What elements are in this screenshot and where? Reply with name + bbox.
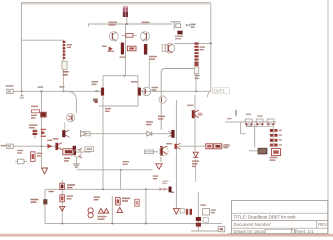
transistor Q5: [177, 31, 182, 35]
resistor R18: [135, 199, 139, 206]
diode string D1: [63, 41, 66, 59]
wire left rail vertical: [20, 2, 22, 91]
wire zobel row: [77, 169, 153, 171]
wire chain2 drop: [195, 55, 197, 91]
resistor R14: [60, 195, 65, 202]
transistor Q2: [140, 32, 149, 41]
d6 area text: [153, 175, 159, 179]
chain1 value text: [67, 44, 72, 48]
fb node text: [38, 86, 44, 87]
chain2 value text: [200, 46, 205, 50]
resistor R15: [115, 198, 120, 205]
title block line above title row: [231, 212, 327, 214]
wire feedback bus left: [16, 90, 101, 92]
wire q5 ground leg: [160, 157, 162, 162]
diode string D2: [194, 43, 198, 67]
vas rail end tick: [87, 24, 89, 27]
capacitor C7: [196, 217, 201, 227]
resistor R3: [122, 34, 138, 38]
wire vas column: [102, 106, 104, 189]
transistor Q13: [73, 146, 76, 155]
wire under boxes: [246, 126, 274, 128]
resistor R7: [63, 149, 74, 155]
wire right fb column: [194, 95, 196, 151]
resistor R6: [32, 110, 47, 118]
wire vas corner arc: [161, 69, 196, 97]
frame bottom inner line: [228, 233, 328, 235]
diode D6: [147, 131, 152, 136]
transistor Q3: [121, 43, 124, 55]
cluster text t2: [175, 36, 183, 40]
svg-text:REV:: REV:: [318, 222, 328, 227]
wire VAS drop: [125, 24, 127, 76]
transistor Q10: [159, 96, 166, 103]
CONN1 label text: [6, 85, 14, 86]
Q7 label text: [92, 81, 99, 85]
wire predriver col: [195, 160, 197, 183]
r7 value text: [64, 158, 70, 162]
cluster text t1: [149, 56, 157, 60]
wire emitter row: [144, 151, 158, 153]
capacitor C3 stub: [20, 93, 25, 98]
Q8 label text: [131, 81, 138, 83]
R6 label text: [31, 106, 38, 108]
diode D11: [117, 207, 123, 212]
svg-text:Drawn by: pnord: Drawn by: pnord: [234, 229, 267, 234]
resistor R12: [214, 144, 222, 149]
ground GND1: [42, 168, 48, 174]
junction dot B: [21, 90, 23, 92]
wire mirror box right: [137, 76, 139, 88]
ground GND2: [73, 164, 79, 168]
k1 value text: [200, 204, 206, 205]
transistor Q19: [43, 199, 47, 204]
box sym B2: [180, 208, 184, 213]
diode D9: [98, 209, 103, 214]
tri sym T1: [173, 209, 179, 214]
wire fb column: [40, 91, 42, 167]
port arrow sym: [80, 131, 86, 137]
wire output tap: [225, 121, 241, 123]
connector CONN1: [7, 89, 16, 93]
wire q21 emitter: [64, 123, 66, 131]
resistor R9: [85, 147, 94, 152]
wire bottom right link: [191, 230, 219, 232]
transistor Q20: [192, 110, 203, 118]
wire output net left drop: [240, 122, 242, 134]
junction dot A: [210, 42, 212, 44]
transistor Q8: [138, 88, 141, 96]
wire upper-left horizontal: [22, 39, 64, 41]
wire lower left col: [61, 180, 63, 223]
diode D10: [104, 208, 109, 213]
R12 label text: [224, 144, 230, 148]
wire inductor row: [249, 150, 258, 152]
wire mid fuse column: [254, 124, 256, 148]
fuse box F1: [245, 119, 252, 125]
title block line below document row: [231, 227, 327, 229]
resistor R17: [84, 132, 90, 136]
svg-text:Sheet: 1/1: Sheet: 1/1: [294, 229, 315, 234]
wire input row: [16, 145, 57, 147]
frame right border: [327, 0, 329, 234]
R1 value text: [63, 71, 69, 76]
fuse box F2: [256, 119, 263, 125]
transistor Q12: [55, 143, 61, 150]
rotated net label: [235, 110, 237, 116]
wire cap feed: [126, 17, 128, 24]
wire right mid row b: [222, 145, 230, 147]
fuse box F3: [267, 119, 274, 125]
wire out col right: [197, 192, 199, 231]
K1 label text: [211, 209, 216, 213]
CONN2 label text: [1, 145, 7, 147]
wire bias row: [45, 188, 169, 190]
diode D3: [108, 46, 115, 52]
diode D8: [60, 206, 65, 211]
wire q6 feed: [148, 58, 150, 88]
diode D4: [186, 24, 190, 26]
box sym B1: [203, 218, 209, 223]
relay box K1: [203, 209, 210, 215]
title block line below title row: [231, 219, 327, 221]
resistor R5: [171, 22, 181, 30]
input label text: [17, 150, 23, 154]
wire right top vertical: [210, 4, 212, 91]
transistor Q16: [174, 143, 180, 149]
Q1 label text: [109, 22, 118, 26]
zener D5: [41, 129, 46, 137]
bus hook mark: [207, 91, 211, 97]
wire V+ top rail: [21, 1, 210, 3]
vas col label text: [105, 108, 111, 112]
resistor R11: [206, 144, 213, 149]
wire vas lower: [160, 103, 162, 130]
title block outer box: [231, 201, 327, 234]
inductor L1: [258, 148, 268, 155]
transistor Q11: [62, 130, 69, 137]
wire output net top: [241, 121, 276, 123]
svg-text:Document Number:: Document Number:: [234, 222, 272, 227]
wire mid col2 to rail: [145, 189, 147, 223]
junction dot C: [63, 90, 65, 92]
wire V- bottom rail: [45, 222, 222, 224]
q18 top label text: [162, 181, 168, 185]
wire chain1 drop: [63, 40, 65, 91]
wire mirror box bottom: [99, 105, 138, 107]
transistor Q6: [165, 43, 175, 53]
transistor Q21: [66, 113, 74, 121]
resistor pack RP2: [270, 139, 282, 147]
diode D7: [193, 152, 198, 157]
resistor R1: [62, 61, 67, 69]
transistor Q4: [144, 44, 147, 55]
capacitor C5: [15, 159, 27, 164]
wire mirror box left: [102, 76, 104, 88]
c4 lead mark: [47, 140, 52, 141]
terminal T2: [218, 227, 225, 232]
diode D12: [47, 144, 52, 149]
resistor R8: [31, 152, 35, 162]
capacitor C6: [186, 209, 192, 215]
current source sym: [162, 45, 165, 52]
out net text: [257, 115, 262, 116]
capacitor C2: [126, 6, 128, 17]
ground GND3: [156, 164, 162, 169]
transistor Q7: [101, 88, 104, 96]
transistor Q1: [109, 32, 118, 41]
D7 label text: [192, 160, 199, 167]
frame bottom border: [0, 234, 333, 237]
wire q14 gnd stem: [75, 157, 77, 163]
wire zobel drop: [120, 170, 122, 190]
chain1 node text: [59, 86, 64, 87]
wire ltp right leg: [137, 96, 139, 106]
net label OUT box: [213, 88, 230, 94]
resistor R2: [194, 67, 198, 74]
transistor Q14: [73, 148, 82, 158]
connector CONN2 input: [7, 144, 16, 148]
thermistor RT1: [93, 98, 98, 103]
wire driver col right: [175, 100, 177, 208]
wire current-source tap: [175, 42, 211, 44]
junction dot E: [126, 23, 128, 25]
junction dot I: [111, 222, 113, 224]
title block REV divider: [316, 220, 318, 228]
fuse label text: [227, 114, 251, 120]
transistor Q9: [142, 87, 150, 95]
junction dot D: [195, 90, 197, 92]
d3 value text: [102, 46, 107, 47]
R6 value text: [31, 115, 37, 119]
wire VAS rail: [88, 23, 172, 25]
Q2 label text: [142, 22, 150, 24]
bias text row: [98, 216, 107, 220]
bar1 value text: [120, 56, 126, 57]
q12 label text: [53, 138, 59, 139]
junction dot H: [61, 222, 63, 224]
wire V+ top rail b: [21, 3, 210, 5]
svg-text:TITLE: Deadbeat DB67 for web: TITLE: Deadbeat DB67 for web: [234, 215, 296, 220]
wire output box frame: [241, 133, 246, 135]
resistor R10: [145, 150, 154, 154]
wire right fuse column: [273, 127, 275, 148]
Q20 label text: [187, 105, 194, 106]
capacitor C4: [33, 130, 38, 139]
R16 label text: [270, 157, 278, 161]
wire mirror box top: [103, 75, 138, 77]
wire feedback bus right: [141, 90, 211, 92]
junction dot F: [123, 75, 125, 77]
C4 label text: [29, 124, 38, 128]
wire arc corner to driver: [64, 91, 77, 113]
wire signal mid row b: [153, 133, 172, 135]
r13 area text: [48, 191, 53, 192]
resistor R13: [60, 183, 65, 189]
drawn by box: [265, 229, 295, 233]
junction dot M: [120, 169, 122, 171]
capacitor C1: [123, 6, 125, 17]
R5 label text: [191, 24, 196, 28]
title block sheet divider: [291, 228, 293, 234]
R14 label text: [67, 195, 74, 199]
R8 label text: [37, 153, 43, 157]
transistor Q18: [169, 187, 174, 193]
wire mid col to rail: [111, 196, 113, 223]
F1 label text: [246, 126, 251, 127]
wire right mid row: [178, 145, 205, 147]
wire signal mid row: [87, 133, 146, 135]
Q9 label text: [152, 87, 159, 91]
D6 label text: [146, 121, 153, 125]
transistor Q15: [169, 130, 175, 138]
resistor R4: [127, 46, 136, 51]
junction dot L: [145, 188, 147, 190]
R15 label text: [122, 198, 130, 202]
svg-text:OUT1: OUT1: [214, 88, 226, 93]
R2 value text: [195, 75, 200, 79]
junction dot J: [145, 222, 147, 224]
wire lower left row: [76, 151, 91, 153]
junction tint: [95, 90, 98, 92]
R13 label text: [67, 184, 75, 188]
Q19 label text: [31, 199, 39, 203]
transistor Q17: [159, 146, 168, 156]
q17 label text: [166, 143, 172, 144]
zobel label text: [123, 161, 129, 165]
resistor pack RP1: [270, 129, 282, 137]
trimmer RV1: [88, 208, 93, 218]
junction dot G: [40, 90, 42, 92]
junction dot K: [102, 188, 104, 190]
resistor R16: [271, 149, 280, 156]
emitter arrow marks: [159, 187, 167, 191]
Q10 label text: [158, 116, 165, 120]
wire ltp left leg: [102, 96, 104, 106]
bias cluster text: [94, 196, 100, 200]
wire left col to rail: [44, 189, 46, 223]
junction dot N: [40, 145, 42, 147]
